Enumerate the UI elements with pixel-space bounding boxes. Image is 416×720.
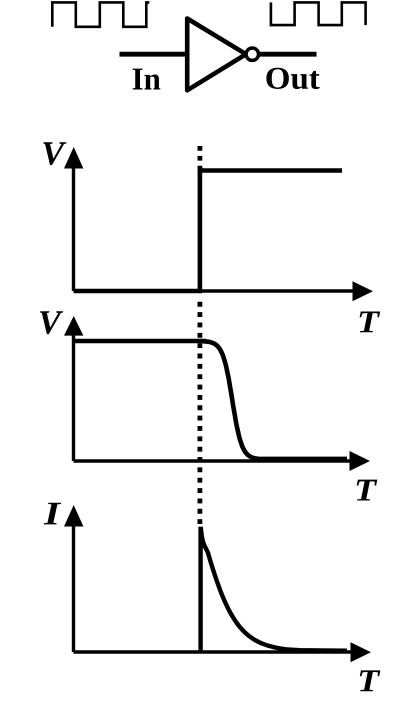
graph2 Y axis xyxy=(72,328,75,461)
graph3 supply current spike and decay curve xyxy=(201,529,347,652)
dotted switching-instant line (graph1) xyxy=(197,146,202,169)
graph2 Y axis arrowhead xyxy=(64,316,83,336)
graph1 input voltage step waveform xyxy=(74,171,343,292)
graph2 X axis xyxy=(74,459,353,462)
wire: inverter input xyxy=(120,52,188,57)
graph1 label V xyxy=(43,142,66,165)
graph3 Y axis xyxy=(72,517,75,652)
graph1 Y axis arrowhead xyxy=(64,147,83,169)
graph1 X axis xyxy=(74,289,356,292)
graph3 label T xyxy=(360,670,381,691)
inverter U1 triangle xyxy=(187,19,246,91)
wire: inverter output xyxy=(259,52,317,57)
input square wave symbol xyxy=(52,2,149,26)
graph1 Y axis xyxy=(72,158,75,291)
graph3 label I xyxy=(44,503,61,525)
graph1 label T xyxy=(360,311,381,332)
graph3 X axis xyxy=(74,650,354,653)
dotted switching-instant line (graphs 2-3) xyxy=(197,302,202,526)
label Out xyxy=(266,68,319,89)
graph2 output voltage fall curve xyxy=(74,341,348,459)
graph2 X axis arrowhead xyxy=(350,451,371,471)
graph1 X axis arrowhead xyxy=(353,281,374,301)
graph3 X axis arrowhead xyxy=(351,642,372,662)
output square wave symbol (inverted) xyxy=(271,2,366,25)
graph2 label V xyxy=(40,311,63,334)
inverter U1 inversion bubble xyxy=(246,48,258,60)
graph3 Y axis arrowhead xyxy=(64,505,83,527)
graph2 label T xyxy=(357,480,378,501)
label In xyxy=(133,69,161,90)
